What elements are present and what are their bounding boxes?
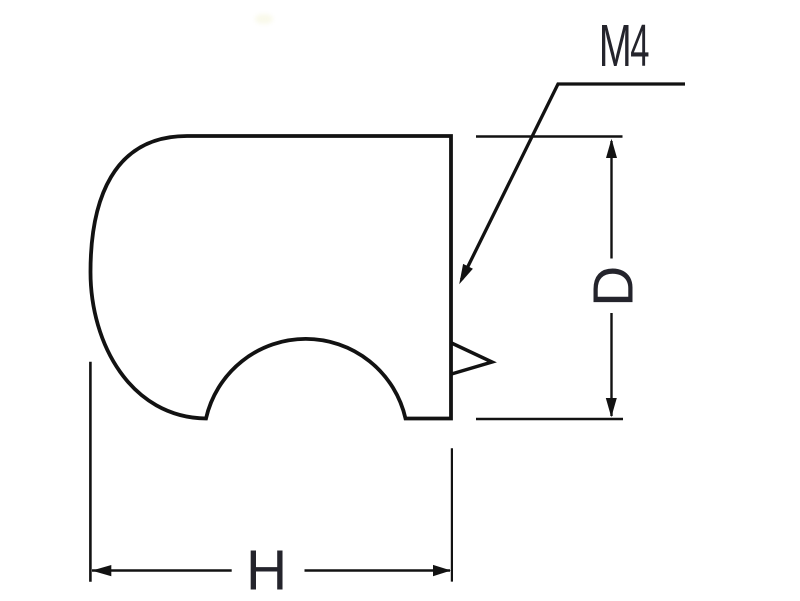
D arrow down	[606, 398, 617, 417]
D top extension line	[476, 135, 623, 138]
H right extension line	[451, 448, 453, 581]
leader line from M4	[462, 84, 686, 280]
D arrow up	[606, 139, 617, 158]
knob body outline	[91, 136, 452, 419]
D bottom extension line	[476, 418, 623, 421]
H dimension line left	[92, 569, 232, 571]
svg-text:4: 4	[630, 13, 649, 79]
svg-text:M: M	[599, 13, 632, 79]
D dimension line lower	[610, 313, 612, 416]
leader arrowhead	[459, 264, 473, 284]
svg-text:D: D	[582, 266, 646, 307]
D dimension line upper	[610, 141, 612, 259]
H dimension line right	[305, 569, 451, 571]
drill cone triangle on right edge	[452, 343, 493, 374]
H arrow right	[433, 565, 451, 576]
svg-text:H: H	[246, 539, 287, 601]
H left extension line	[89, 362, 92, 582]
H arrow left	[92, 565, 112, 576]
